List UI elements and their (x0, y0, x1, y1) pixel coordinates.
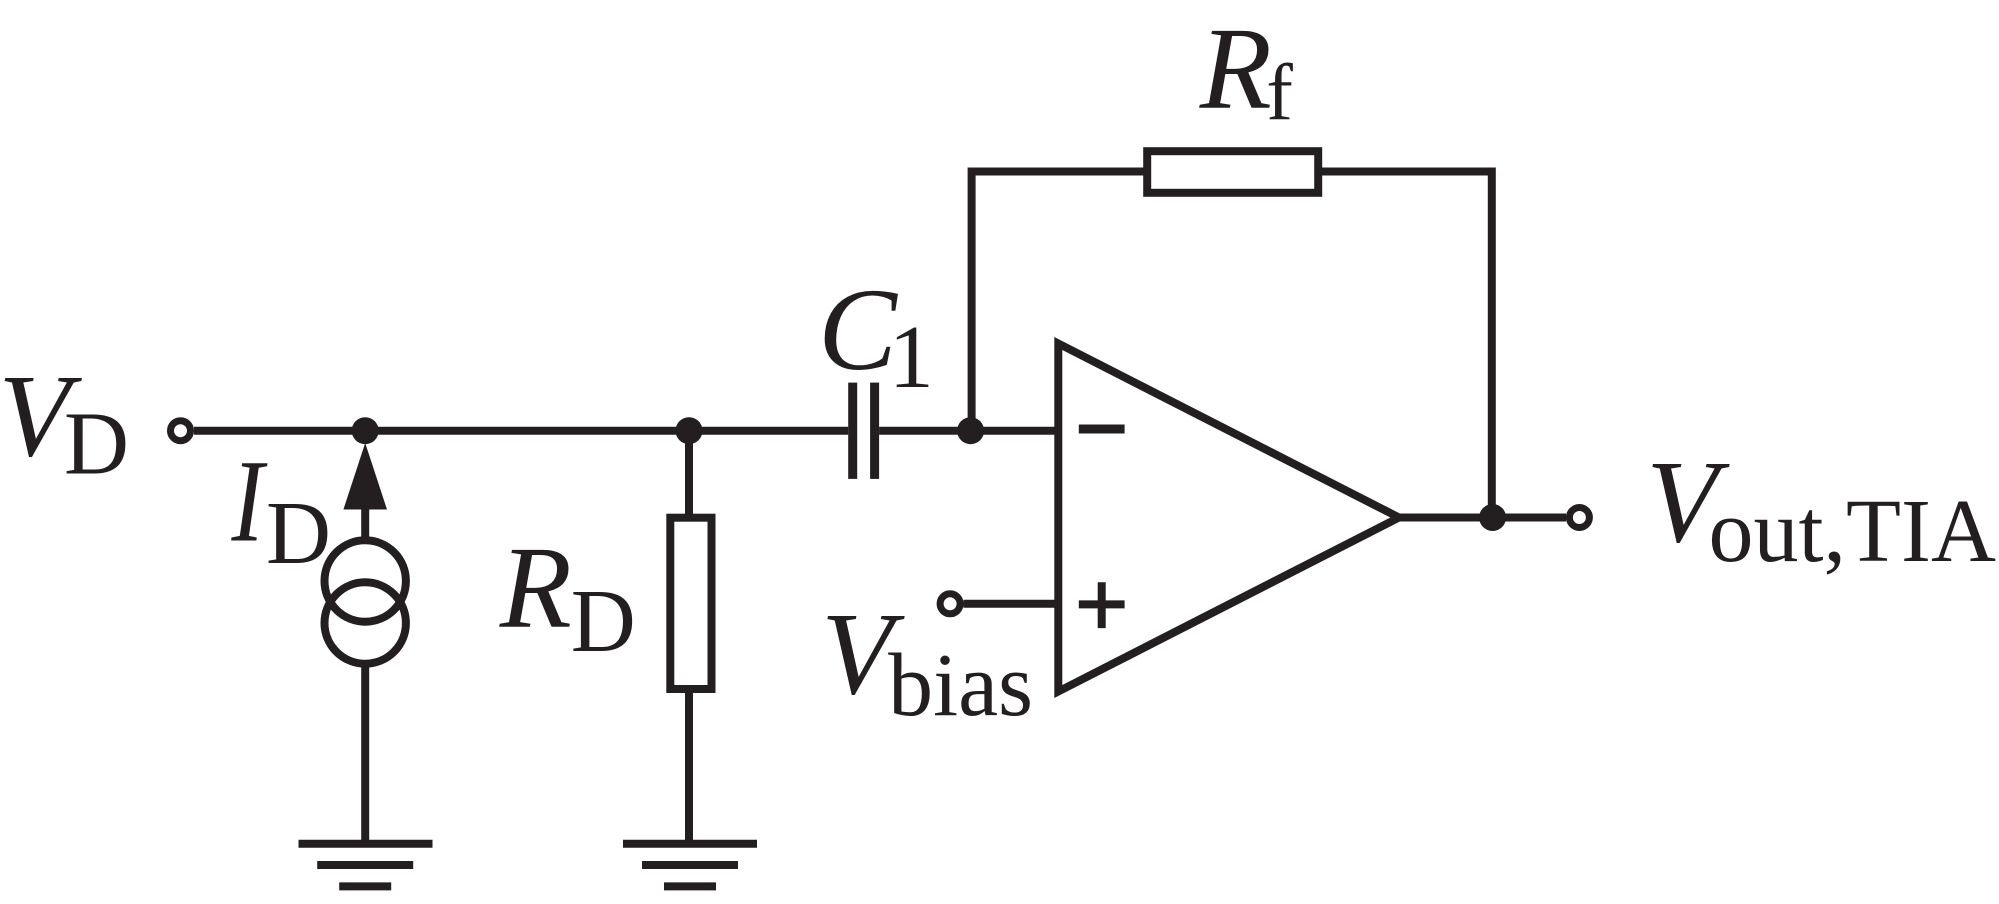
current source I1 stem top (361, 505, 369, 540)
op-amp U1 (1058, 344, 1399, 692)
svg-text:D: D (266, 484, 331, 583)
resistor RD (670, 518, 711, 689)
wire RD bottom (685, 689, 693, 844)
svg-text:R: R (1199, 3, 1272, 134)
current source I1 stem bottom (361, 667, 369, 844)
current source I1 circle bottom (325, 582, 406, 663)
label Rf (1199, 3, 1294, 137)
junction J3 (957, 417, 984, 444)
wire RD top (685, 431, 693, 518)
resistor Rf (1147, 151, 1318, 193)
svg-text:R: R (499, 522, 572, 653)
svg-text:out,TIA: out,TIA (1709, 482, 1996, 581)
capacitor C1 plate right (870, 383, 879, 479)
junction J4 (1479, 504, 1506, 531)
junction J1 (352, 417, 379, 444)
capacitor C1 plate left (848, 383, 857, 479)
current source I1 arrow (343, 443, 387, 510)
svg-text:f: f (1266, 49, 1293, 137)
label RD (499, 522, 636, 671)
svg-text:D: D (571, 572, 636, 671)
op-amp plus sign (1079, 582, 1125, 628)
wire main left (194, 427, 848, 435)
node VD label (0, 350, 129, 494)
terminal VD (171, 421, 191, 441)
current source I1 circle top (325, 540, 406, 621)
terminal Vbias (940, 594, 960, 614)
wire plus input (964, 600, 1059, 608)
svg-text:D: D (64, 395, 129, 494)
svg-text:1: 1 (889, 308, 934, 407)
wire feedback left (972, 172, 1148, 431)
ground G2 (623, 844, 757, 887)
svg-text:C: C (818, 264, 898, 395)
label Vbias (821, 588, 1033, 735)
junction J2 (676, 417, 703, 444)
terminal Vout (1569, 508, 1589, 528)
label C1 (818, 264, 934, 407)
op-amp minus sign (1079, 425, 1125, 434)
label ID (231, 437, 331, 583)
wire feedback right (1318, 172, 1492, 518)
ground G1 (299, 844, 433, 887)
wire output (1400, 514, 1566, 522)
wire main right (879, 427, 1058, 435)
label Vout,TIA (1646, 436, 1996, 581)
svg-text:bias: bias (888, 636, 1033, 735)
svg-text:I: I (231, 437, 269, 567)
